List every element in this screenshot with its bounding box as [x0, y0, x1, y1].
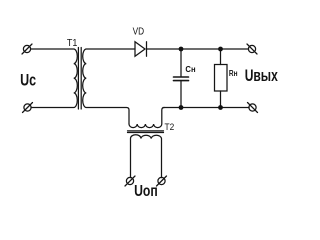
svg-text:T2: T2: [165, 122, 175, 132]
svg-text:Uоп: Uоп: [134, 183, 158, 200]
svg-text:Rн: Rн: [229, 69, 238, 78]
svg-text:Uвых: Uвых: [245, 67, 279, 85]
svg-text:VD: VD: [133, 27, 145, 38]
svg-text:Cн: Cн: [185, 65, 195, 74]
svg-text:T1: T1: [67, 38, 78, 49]
svg-text:Uc: Uc: [20, 71, 36, 89]
